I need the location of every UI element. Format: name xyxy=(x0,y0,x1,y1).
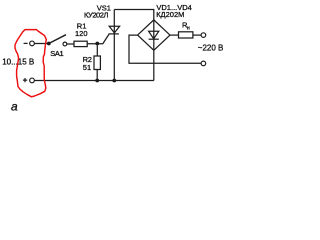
svg-text:КУ202Л: КУ202Л xyxy=(84,10,108,19)
svg-text:SA1: SA1 xyxy=(50,49,63,58)
svg-text:51: 51 xyxy=(83,63,91,72)
svg-text:н: н xyxy=(187,25,190,31)
svg-text:120: 120 xyxy=(75,29,88,38)
svg-text:а: а xyxy=(11,100,18,114)
svg-text:КД202М: КД202М xyxy=(156,10,184,19)
svg-text:~220 В: ~220 В xyxy=(198,43,224,52)
